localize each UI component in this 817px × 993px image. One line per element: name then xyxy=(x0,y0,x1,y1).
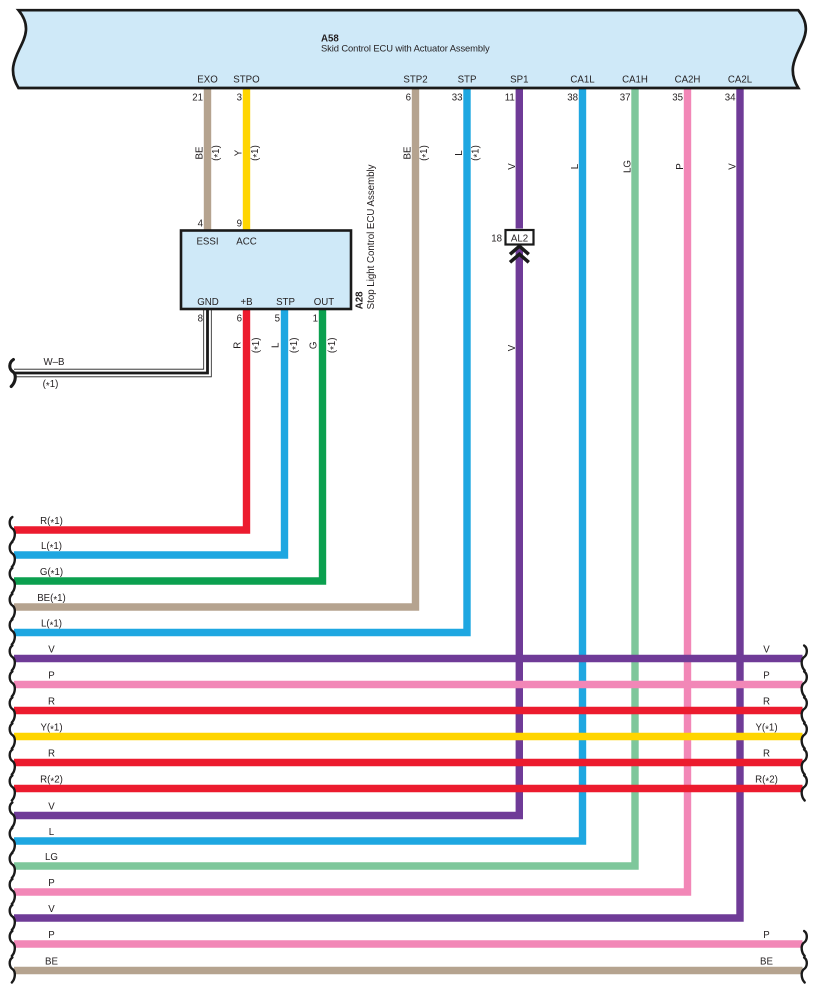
svg-text:4: 4 xyxy=(198,219,204,230)
svg-text:R: R xyxy=(233,342,244,349)
svg-text:8: 8 xyxy=(198,314,203,325)
svg-text:6: 6 xyxy=(237,314,242,325)
svg-text:5: 5 xyxy=(275,314,280,325)
svg-text:33: 33 xyxy=(452,92,463,103)
svg-text:LG: LG xyxy=(623,160,634,173)
svg-text:21: 21 xyxy=(192,92,203,103)
svg-text:EXO: EXO xyxy=(197,75,218,86)
svg-text:9: 9 xyxy=(237,219,242,230)
svg-text:SP1: SP1 xyxy=(510,75,528,86)
svg-text:G: G xyxy=(309,342,320,350)
svg-text:Stop Light Control ECU Assembl: Stop Light Control ECU Assembly xyxy=(366,164,377,309)
svg-text:V: V xyxy=(507,344,518,351)
svg-text:P: P xyxy=(763,670,769,681)
svg-text:CA1H: CA1H xyxy=(622,75,648,86)
svg-text:V: V xyxy=(763,644,770,655)
svg-text:34: 34 xyxy=(725,92,736,103)
svg-text:W–B: W–B xyxy=(44,357,65,368)
svg-text:Y: Y xyxy=(233,149,244,156)
svg-text:V: V xyxy=(728,163,739,170)
svg-text:V: V xyxy=(48,904,55,915)
svg-text:ACC: ACC xyxy=(236,237,256,248)
svg-text:L: L xyxy=(454,150,465,156)
svg-text:18: 18 xyxy=(491,233,502,244)
svg-text:ESSI: ESSI xyxy=(196,237,218,248)
svg-text:R: R xyxy=(48,696,55,707)
svg-text:LG: LG xyxy=(45,852,58,863)
svg-text:R: R xyxy=(48,748,55,759)
svg-text:37: 37 xyxy=(620,92,631,103)
svg-text:BE: BE xyxy=(45,956,58,967)
svg-text:1: 1 xyxy=(313,314,318,325)
svg-text:GND: GND xyxy=(197,297,219,308)
svg-text:L: L xyxy=(271,342,282,348)
svg-text:STPO: STPO xyxy=(233,75,260,86)
svg-text:BE: BE xyxy=(194,146,205,159)
svg-text:CA2H: CA2H xyxy=(675,75,701,86)
svg-text:11: 11 xyxy=(505,92,515,103)
svg-text:V: V xyxy=(48,644,55,655)
svg-text:P: P xyxy=(675,163,686,169)
svg-text:3: 3 xyxy=(237,92,242,103)
svg-text:BE: BE xyxy=(760,956,773,967)
svg-text:P: P xyxy=(48,670,54,681)
svg-text:38: 38 xyxy=(567,92,578,103)
svg-text:STP: STP xyxy=(458,75,477,86)
svg-text:CA1L: CA1L xyxy=(570,75,595,86)
svg-text:Skid Control ECU with Actuator: Skid Control ECU with Actuator Assembly xyxy=(321,42,490,53)
svg-text:BE: BE xyxy=(402,146,413,159)
svg-text:6: 6 xyxy=(406,92,411,103)
svg-text:L: L xyxy=(570,163,581,169)
svg-text:P: P xyxy=(48,878,54,889)
svg-text:STP2: STP2 xyxy=(403,75,427,86)
svg-text:V: V xyxy=(507,163,518,170)
svg-text:AL2: AL2 xyxy=(511,233,528,244)
svg-text:+B: +B xyxy=(240,297,252,308)
svg-text:P: P xyxy=(48,930,54,941)
svg-text:A28: A28 xyxy=(355,291,366,309)
svg-text:OUT: OUT xyxy=(314,297,335,308)
svg-text:P: P xyxy=(763,930,769,941)
svg-text:L: L xyxy=(49,827,55,838)
svg-text:35: 35 xyxy=(672,92,683,103)
svg-text:V: V xyxy=(48,801,55,812)
svg-text:STP: STP xyxy=(276,297,295,308)
svg-text:CA2L: CA2L xyxy=(728,75,753,86)
svg-text:R: R xyxy=(763,696,770,707)
svg-text:R: R xyxy=(763,748,770,759)
